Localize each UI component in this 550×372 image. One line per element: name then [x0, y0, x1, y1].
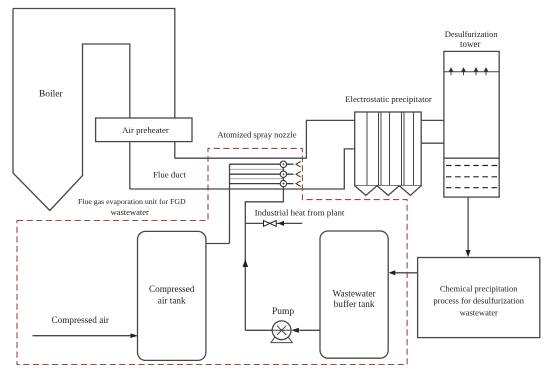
spray pipe 3	[230, 183, 294, 185]
up arrow on riser	[243, 259, 249, 267]
electrostatic precipitator body	[355, 112, 422, 186]
arrow into chemical box	[466, 250, 471, 257]
svg-text:Electrostatic precipitator: Electrostatic precipitator	[345, 94, 432, 104]
ESP hopper 2	[377, 186, 399, 196]
desulfurization tower body	[444, 51, 499, 197]
flue duct bottom wall	[130, 149, 355, 189]
air preheater box	[96, 118, 192, 142]
compressed air tank	[138, 231, 206, 360]
svg-text:Pump: Pump	[272, 307, 294, 317]
svg-text:Compressed air: Compressed air	[51, 315, 108, 325]
air tank to manifold wire	[206, 243, 230, 245]
nozzle circle 1	[280, 161, 286, 167]
spray pipe 2 lower wall	[230, 178, 284, 180]
tower spray arrow 4	[485, 72, 487, 76]
svg-text:air tank: air tank	[158, 296, 186, 306]
wastewater manifold wire	[245, 164, 283, 330]
nozzle spray chevron 3	[296, 181, 301, 187]
nozzle circle 3	[280, 180, 286, 186]
nozzle spray chevron 2	[296, 171, 301, 177]
svg-text:Atomized spray nozzle: Atomized spray nozzle	[217, 129, 296, 139]
svg-text:Boiler: Boiler	[39, 90, 64, 100]
svg-text:Flue gas evaporation unit for: Flue gas evaporation unit for FGD	[78, 197, 186, 206]
industrial heat wire	[245, 222, 302, 224]
arrow into buffer tank	[389, 270, 396, 275]
spray pipe 1	[230, 163, 294, 165]
tower liquid dashed level 2	[446, 176, 498, 178]
heat flow arrow	[278, 221, 284, 226]
chem box to buffer tank wire	[395, 272, 418, 274]
ESP hopper 3	[399, 186, 421, 196]
ESP hopper 1	[355, 186, 377, 196]
tower spray arrow 2	[463, 72, 465, 76]
svg-text:Flue duct: Flue duct	[153, 170, 187, 180]
svg-text:wastewater: wastewater	[460, 307, 498, 317]
tank to pump wire	[300, 329, 321, 331]
tower liquid dashed level 1	[446, 165, 498, 167]
nozzle spray chevron 1	[296, 161, 301, 167]
ESP to tower upper wire	[421, 119, 444, 121]
ESP plates	[367, 112, 414, 186]
ESP to tower lower wire	[421, 142, 444, 144]
pump circle	[272, 321, 291, 340]
arrow into air tank	[131, 333, 139, 338]
air manifold vertical	[229, 164, 231, 243]
pump impeller marks	[273, 326, 291, 335]
boiler outline	[13, 9, 175, 211]
dashed boundary: flue gas evaporation unit	[17, 148, 407, 364]
pump suction wire	[245, 329, 272, 331]
arrow into pump	[291, 328, 299, 333]
tower spray header line	[444, 71, 499, 73]
tower liquid dashed level 3	[446, 187, 498, 189]
svg-text:Industrial heat from plant: Industrial heat from plant	[255, 207, 345, 217]
chemical precipitation box	[418, 258, 540, 338]
valve	[264, 221, 277, 227]
tower outlet wire	[467, 197, 469, 251]
tower spray arrow 3	[475, 72, 477, 76]
svg-text:Air preheater: Air preheater	[122, 125, 169, 135]
svg-text:wastewater: wastewater	[111, 207, 149, 217]
nozzle circle 2	[280, 171, 286, 177]
flue duct top wall	[175, 120, 355, 158]
svg-text:process for desulfurization: process for desulfurization	[433, 295, 524, 305]
svg-text:Compressed: Compressed	[149, 284, 195, 294]
wastewater buffer tank	[320, 231, 388, 358]
svg-text:buffer tank: buffer tank	[334, 299, 375, 310]
spray pipe 1 lower wall	[230, 168, 284, 170]
svg-text:Chemical precipitation: Chemical precipitation	[440, 283, 518, 293]
tower liquid surface	[444, 157, 499, 159]
pump base	[271, 338, 292, 343]
tower spray arrow 1	[450, 72, 452, 76]
compressed air wire	[33, 335, 131, 337]
svg-text:Wastewater: Wastewater	[333, 290, 377, 300]
svg-text:tower: tower	[460, 39, 481, 49]
spray pipe 2	[230, 173, 294, 175]
svg-text:Desulfurization: Desulfurization	[445, 29, 499, 39]
